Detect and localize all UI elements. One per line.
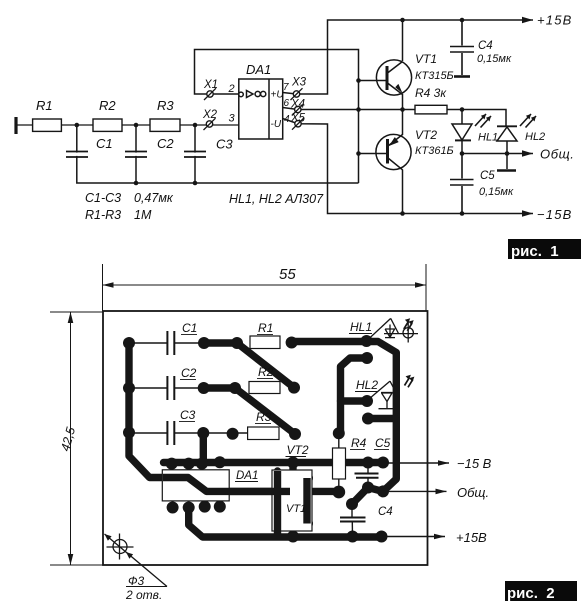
svg-text:X5: X5 bbox=[290, 113, 306, 125]
svg-text:R4 3к: R4 3к bbox=[415, 86, 447, 100]
svg-text:X1: X1 bbox=[203, 79, 218, 91]
svg-text:R3: R3 bbox=[157, 98, 174, 113]
svg-text:0,47мк: 0,47мк bbox=[134, 191, 174, 205]
svg-text:C4: C4 bbox=[378, 506, 393, 518]
svg-text:55: 55 bbox=[279, 266, 296, 283]
svg-text:R4: R4 bbox=[351, 436, 367, 450]
svg-text:C1-C3: C1-C3 bbox=[85, 191, 121, 205]
svg-text:рис. 2: рис. 2 bbox=[507, 585, 555, 601]
svg-text:R3: R3 bbox=[256, 410, 272, 424]
svg-text:HL2: HL2 bbox=[525, 131, 545, 143]
svg-text:−15В: −15В bbox=[537, 207, 573, 222]
svg-text:+15В: +15В bbox=[456, 530, 487, 545]
svg-text:R1: R1 bbox=[258, 321, 273, 335]
svg-text:2: 2 bbox=[228, 83, 235, 95]
svg-text:VT2: VT2 bbox=[287, 443, 309, 457]
svg-text:КТ315Б: КТ315Б bbox=[415, 70, 454, 82]
svg-text:C1: C1 bbox=[182, 321, 197, 335]
svg-text:+15В: +15В bbox=[537, 13, 573, 28]
svg-text:Ф3: Ф3 bbox=[128, 574, 145, 588]
svg-text:HL1: HL1 bbox=[478, 132, 498, 144]
svg-text:4: 4 bbox=[284, 114, 290, 125]
svg-text:C2: C2 bbox=[157, 136, 174, 151]
svg-text:HL1: HL1 bbox=[350, 320, 372, 334]
svg-text:1М: 1М bbox=[134, 208, 152, 222]
svg-text:C5: C5 bbox=[480, 170, 495, 182]
svg-text:R2: R2 bbox=[99, 98, 116, 113]
svg-text:C5: C5 bbox=[375, 436, 391, 450]
svg-text:+U: +U bbox=[271, 90, 285, 101]
svg-text:0,15мк: 0,15мк bbox=[477, 53, 512, 65]
svg-text:2 отв.: 2 отв. bbox=[125, 588, 162, 601]
svg-text:C1: C1 bbox=[96, 136, 113, 151]
svg-text:VT1: VT1 bbox=[286, 503, 306, 515]
svg-text:6: 6 bbox=[284, 98, 290, 109]
svg-text:КТ361Б: КТ361Б bbox=[415, 145, 454, 157]
svg-text:DA1: DA1 bbox=[246, 62, 271, 77]
svg-text:C3: C3 bbox=[216, 137, 233, 152]
svg-text:C4: C4 bbox=[478, 40, 493, 52]
svg-text:R2: R2 bbox=[258, 365, 274, 379]
svg-text:VT2: VT2 bbox=[415, 128, 437, 142]
svg-text:X2: X2 bbox=[202, 109, 218, 121]
svg-text:C3: C3 bbox=[180, 408, 196, 422]
svg-text:X3: X3 bbox=[291, 77, 307, 89]
svg-text:−15 В: −15 В bbox=[457, 456, 492, 471]
svg-text:7: 7 bbox=[283, 82, 289, 93]
svg-text:R1-R3: R1-R3 bbox=[85, 208, 121, 222]
svg-text:R1: R1 bbox=[36, 98, 53, 113]
svg-text:Общ.: Общ. bbox=[457, 485, 489, 500]
svg-text:рис. 1: рис. 1 bbox=[511, 243, 559, 260]
svg-text:HL2: HL2 bbox=[356, 378, 378, 392]
svg-text:Общ.: Общ. bbox=[540, 147, 575, 162]
svg-text:DA1: DA1 bbox=[236, 470, 258, 482]
svg-text:HL1, HL2 АЛ307: HL1, HL2 АЛ307 bbox=[229, 192, 324, 206]
svg-text:3: 3 bbox=[229, 113, 236, 125]
svg-text:VT1: VT1 bbox=[415, 52, 437, 66]
svg-text:C2: C2 bbox=[181, 366, 197, 380]
svg-text:X4: X4 bbox=[290, 99, 305, 111]
svg-text:-U: -U bbox=[271, 119, 282, 130]
svg-text:0,15мк: 0,15мк bbox=[479, 186, 514, 198]
